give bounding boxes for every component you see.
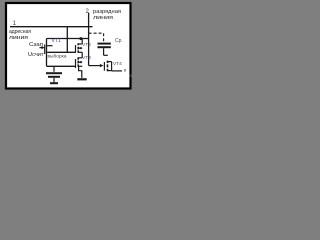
wire gate rail y52 [47, 51, 75, 53]
wire storage node y66 [47, 65, 76, 67]
wire VT2 source to VT3 drain [81, 52, 83, 58]
svg-text:а: а [129, 73, 132, 78]
wire VT1 drain-channel-source vertical [46, 39, 48, 67]
node junction dot [79, 37, 82, 40]
capacitor storage C [46, 66, 62, 82]
capacitor Cp dashed parasitic [89, 33, 111, 55]
ground bar under capacitor [50, 82, 58, 84]
svg-text:VT1: VT1 [52, 38, 61, 44]
wire from line 1 down to node [66, 27, 68, 53]
svg-text:Uсчит: Uсчит [28, 52, 44, 58]
ground bar under VT3 [77, 78, 86, 80]
wire bit line 2 (vertical) [88, 13, 90, 66]
svg-text:VT4: VT4 [113, 61, 122, 67]
svg-text:Ср: Ср [115, 38, 122, 44]
svg-text:VT3: VT3 [82, 55, 91, 61]
page background [0, 0, 135, 94]
wire VT3 source down [79, 66, 82, 78]
transistor VT4 [104, 61, 122, 72]
svg-text:VT2: VT2 [82, 42, 91, 48]
transistor VT3 [76, 57, 83, 68]
svg-text:линия: линия [93, 15, 113, 21]
wire bit line to VT4 gate [89, 65, 100, 67]
svg-text:линия: линия [9, 35, 28, 41]
wire address line 1 (horizontal word line) [10, 26, 93, 28]
svg-text:1: 1 [13, 20, 17, 27]
svg-text:Сзап: Сзап [29, 42, 43, 48]
transistor VT2 [76, 39, 83, 53]
svg-text:выборка: выборка [48, 53, 67, 58]
transistor VT1 [40, 45, 53, 55]
wire top node rail y38 [47, 38, 89, 40]
